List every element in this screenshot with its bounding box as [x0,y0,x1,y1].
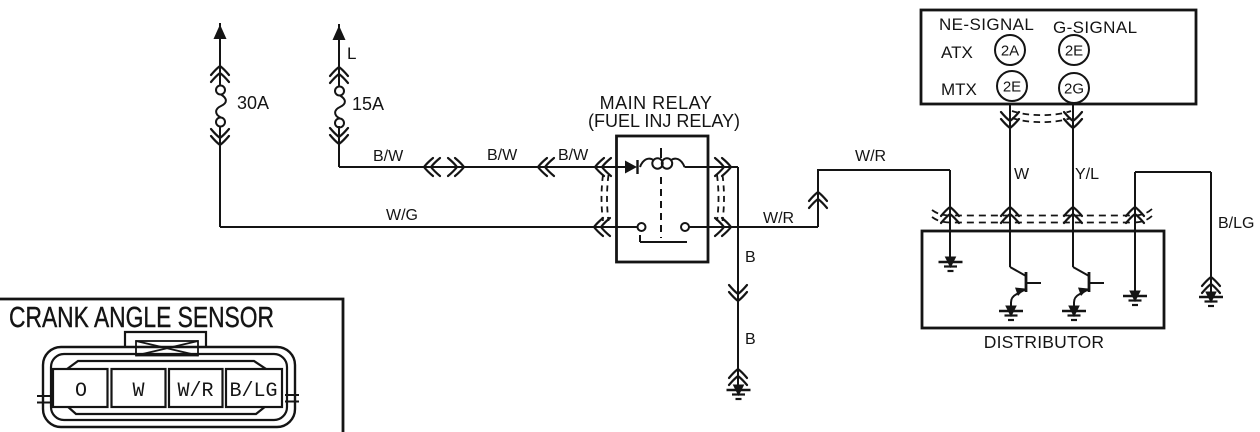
wire W vertical [1009,104,1011,267]
svg-text:MTX: MTX [941,80,977,99]
sensor connector bowtie [136,341,198,356]
wire W/G horizontal [220,226,637,228]
wire fuse F1 vertical [219,39,221,227]
shielded pair dashes below box [1012,111,1071,122]
ground (B wire) [727,385,751,399]
wire distributor right drop [1134,172,1136,293]
terminal 4 B/LG [226,369,282,407]
terminal 1 O [53,369,108,407]
sensor connector top tab [125,332,206,348]
svg-text:DISTRIBUTOR: DISTRIBUTOR [984,332,1105,352]
svg-text:W/R: W/R [763,210,794,227]
ground (distributor right) [1123,291,1147,305]
relay coil [640,148,685,169]
battery feed arrow (30A circuit) [214,23,227,41]
relay contact output wire [689,226,818,228]
sensor connector right latch [285,395,299,402]
svg-text:B/W: B/W [487,147,518,164]
svg-text:B/LG: B/LG [1218,215,1254,232]
svg-text:W/R: W/R [177,380,213,403]
relay connector dashed boundary (left) [602,175,609,221]
connector chevron above ground [729,369,747,385]
pin 2E (NE, ATX) [1059,35,1089,65]
connector chevron on F2 wire (up) [330,67,348,83]
connector chevron right of relay (contact wire) [715,218,731,236]
wire B/LG top run [1135,172,1211,292]
svg-text:2A: 2A [1001,43,1019,60]
svg-text:W/R: W/R [855,148,886,165]
pin 2E (NE, MTX) [997,71,1027,101]
connector chevron above B/LG ground [1202,277,1220,293]
wire W/R riser [818,170,950,227]
distributor box [922,231,1164,328]
distributor connector band chevrons [941,207,1144,223]
connector chevron below box (W) [1001,112,1019,128]
terminal 3 W/R [169,369,223,407]
svg-text:B/LG: B/LG [229,380,277,403]
connector chevron on B wire [729,285,747,301]
svg-text:NE-SIGNAL: NE-SIGNAL [939,15,1034,34]
svg-text:W/G: W/G [386,207,418,224]
svg-text:2E: 2E [1065,43,1083,60]
ECU connector signal box [921,10,1196,104]
svg-text:MAIN RELAY: MAIN RELAY [600,93,713,113]
svg-text:W: W [132,380,144,403]
pin 2A [995,35,1025,65]
connector chevron on W/G at relay [594,218,610,236]
fuse F1 30A [216,86,226,127]
ground (W/R inside distributor) [939,257,963,271]
diode inside relay [625,160,638,174]
relay coil output wire [685,166,739,168]
relay contact circles [638,223,690,231]
svg-text:2G: 2G [1064,81,1084,98]
svg-text:B: B [745,331,756,348]
inline connector pair on B/W [424,158,464,176]
transistor Q2 [1073,267,1104,307]
svg-text:L: L [347,44,356,63]
svg-text:B/W: B/W [373,148,404,165]
svg-text:B/W: B/W [558,147,589,164]
connector chevron right of relay (coil wire) [715,158,731,176]
battery feed arrow (15A circuit) [333,24,346,42]
connector chevron on W/R riser [809,192,827,208]
sensor connector inner shell [51,354,287,420]
connector chevron on B/W [538,158,554,176]
relay connector dashed boundary (right) [717,175,724,221]
sensor connector left latch [37,396,53,403]
connector chevron below box (Y/L) [1064,112,1082,128]
svg-text:15A: 15A [352,94,384,114]
sensor connector outer shell [43,347,295,427]
connector chevron on B/W at relay [595,158,611,176]
svg-text:Y/L: Y/L [1075,166,1099,183]
svg-text:2E: 2E [1003,79,1021,96]
ground (B/LG) [1199,292,1223,306]
connector chevron on F1 wire (down) [211,129,229,145]
wire fuse F2 vertical [338,40,340,167]
svg-text:CRANK ANGLE SENSOR: CRANK ANGLE SENSOR [9,302,274,334]
connector chevron on F2 wire (down) [330,128,348,144]
ground (Q2 emitter) [1062,306,1086,320]
svg-text:30A: 30A [237,93,269,113]
wire B vertical [737,167,739,387]
svg-text:G-SIGNAL: G-SIGNAL [1053,18,1137,37]
wire W/R drop to distributor [949,170,951,258]
fuse F2 15A [335,87,345,128]
svg-text:O: O [75,380,87,403]
svg-text:B: B [745,249,756,266]
relay switch arm [640,235,687,242]
dashed actuation link [660,177,662,238]
ground (Q1 emitter) [999,306,1023,320]
svg-text:(FUEL INJ RELAY): (FUEL INJ RELAY) [588,111,740,131]
svg-text:ATX: ATX [941,43,973,62]
wire Y/L vertical [1072,104,1074,267]
distributor connector band dashes [932,209,1152,223]
transistor Q1 [1010,267,1041,307]
crank angle sensor frame [0,299,343,432]
relay box MAIN RELAY [617,136,709,262]
sensor connector chamfered insert [67,361,266,414]
svg-text:W: W [1014,166,1030,183]
wire B/W horizontal [339,166,625,168]
terminal 2 W [112,369,166,407]
connector chevron on F1 wire (up) [211,66,229,82]
pin 2G [1059,73,1089,103]
